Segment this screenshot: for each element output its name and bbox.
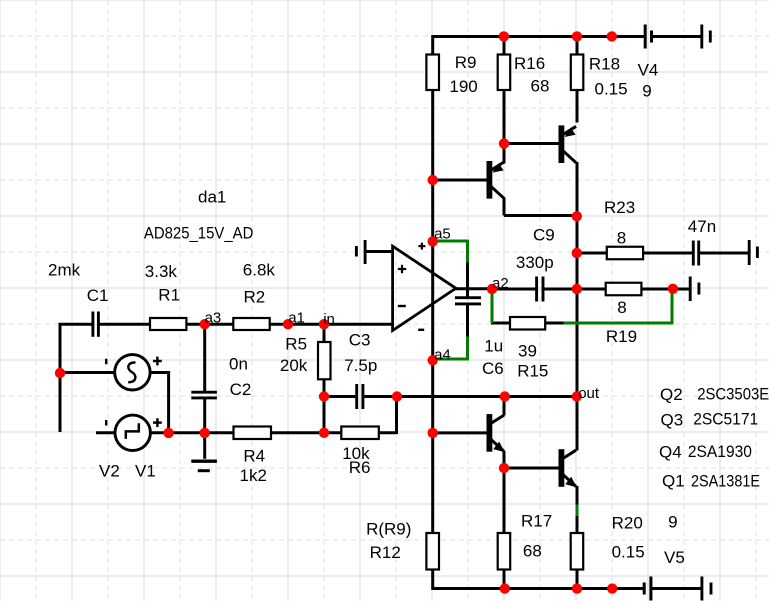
wire Q1 emitter segment (green) bbox=[576, 505, 579, 517]
svg-text:R18: R18 bbox=[589, 54, 620, 73]
resistor R6 value 10k bbox=[341, 427, 379, 478]
label Q1 model 2SA1381E bbox=[662, 472, 760, 491]
wire V2 left lead bbox=[59, 371, 116, 374]
wire V1 to C2 node bbox=[150, 431, 234, 434]
svg-text:R(R9): R(R9) bbox=[366, 520, 411, 539]
junction top rail R18 bbox=[572, 31, 582, 41]
svg-text:da1: da1 bbox=[198, 188, 226, 207]
node a4 bbox=[428, 347, 451, 366]
svg-text:V4: V4 bbox=[638, 61, 659, 80]
wire out row bbox=[396, 395, 578, 398]
transistor Q4 bbox=[487, 414, 505, 452]
resistor R17 value 68 bbox=[498, 512, 552, 570]
svg-text:8: 8 bbox=[617, 298, 626, 317]
wire Q3 emitter bbox=[576, 162, 579, 217]
resistor R5 value 20k bbox=[280, 335, 331, 380]
svg-text:0.15: 0.15 bbox=[612, 543, 645, 562]
wire left rail R9 to R12 bbox=[431, 89, 434, 534]
wire op-amp output bbox=[454, 287, 492, 290]
wire V1 left stub bbox=[96, 431, 116, 434]
svg-text:2mk: 2mk bbox=[48, 261, 81, 280]
wire op-amp noninverting input bbox=[365, 250, 393, 253]
wire R6 right lead bbox=[378, 431, 397, 434]
voltage source V1 (pulse) bbox=[106, 415, 162, 480]
resistor R23 value 8 bbox=[604, 198, 643, 259]
svg-text:out: out bbox=[578, 385, 600, 402]
svg-text:68: 68 bbox=[531, 77, 550, 96]
svg-text:in: in bbox=[323, 311, 335, 328]
label Q3 model 2SC5171 bbox=[661, 410, 759, 430]
svg-text:R17: R17 bbox=[521, 512, 552, 531]
wire R5 node to R4 row bbox=[323, 396, 326, 434]
node a2 bbox=[487, 275, 509, 294]
svg-text:0n: 0n bbox=[229, 355, 248, 374]
node a1 bbox=[283, 310, 305, 330]
wire R16 top lead bbox=[503, 35, 506, 54]
junction Q3 base/R16 bbox=[499, 138, 509, 148]
svg-text:C2: C2 bbox=[230, 380, 252, 399]
wire top supply rail bbox=[433, 35, 645, 38]
wire Q2 base bbox=[432, 179, 488, 182]
svg-text:47n: 47n bbox=[688, 217, 716, 236]
wire emitter row to out rail bbox=[504, 214, 577, 217]
wire R5 top lead bbox=[323, 323, 326, 343]
resistor R19 value 8 bbox=[606, 283, 642, 346]
wire Q1 base bbox=[503, 467, 560, 470]
terminal at R19 output bbox=[690, 277, 699, 302]
junction Q2 base bbox=[428, 175, 438, 185]
junction R5/C3 bbox=[319, 391, 329, 401]
svg-text:C3: C3 bbox=[349, 331, 371, 350]
svg-text:C9: C9 bbox=[533, 225, 555, 244]
junction bottom rail R20 bbox=[572, 583, 582, 593]
svg-text:V1: V1 bbox=[135, 462, 156, 481]
svg-text:Q4: Q4 bbox=[659, 443, 682, 462]
wire R23 right lead bbox=[642, 252, 692, 255]
terminal at 47n output bbox=[749, 240, 757, 265]
wire V5 to terminal bbox=[652, 587, 702, 590]
wire C3 left lead bbox=[323, 395, 355, 398]
wire C6 top lead bbox=[466, 262, 469, 298]
svg-text:20k: 20k bbox=[280, 356, 308, 375]
wire R17 top lead bbox=[503, 467, 506, 534]
resistor R20 value 0.15 bbox=[571, 514, 645, 570]
wire net a2 to R15 (green) bbox=[491, 289, 494, 323]
wire C1 left lead bbox=[59, 323, 92, 326]
wire R5 bottom lead bbox=[323, 378, 326, 397]
junction top rail V4 bbox=[607, 31, 617, 41]
svg-text:R9: R9 bbox=[455, 53, 477, 72]
transistor Q1 bbox=[559, 449, 577, 487]
battery V5 value 9 bbox=[644, 513, 685, 601]
terminal at V4 bbox=[702, 25, 711, 49]
svg-text:1k2: 1k2 bbox=[240, 466, 267, 485]
voltage source V2 (sine) bbox=[99, 355, 162, 481]
wire C9 to out rail bbox=[544, 288, 578, 291]
wire R9 top lead bbox=[431, 35, 434, 54]
wire R15 to R19 (green) bbox=[564, 288, 673, 324]
wire R23 left lead bbox=[576, 252, 607, 255]
wire ground lead bbox=[203, 433, 206, 459]
wire C3 right lead bbox=[364, 395, 398, 398]
svg-text:2SA1381E: 2SA1381E bbox=[691, 472, 760, 491]
wire R15 left lead bbox=[491, 322, 510, 325]
capacitor C9 value 330p bbox=[516, 225, 555, 301]
wire R18 top lead bbox=[576, 35, 579, 54]
resistor R9 value 190 bbox=[426, 53, 477, 96]
svg-text:R23: R23 bbox=[604, 198, 635, 217]
svg-text:330p: 330p bbox=[516, 253, 554, 272]
wire out rail bbox=[576, 215, 579, 451]
svg-text:R2: R2 bbox=[244, 288, 266, 307]
svg-text:R5: R5 bbox=[285, 335, 307, 354]
svg-text:9: 9 bbox=[668, 513, 677, 532]
svg-text:1u: 1u bbox=[484, 337, 503, 356]
svg-text:V5: V5 bbox=[664, 548, 685, 567]
node in bbox=[319, 311, 335, 329]
wire a3 rail to C2 bbox=[203, 323, 206, 393]
wire Q4 emitter bbox=[503, 451, 506, 469]
svg-text:9: 9 bbox=[642, 82, 651, 101]
wire net a4 (green) bbox=[433, 337, 468, 361]
svg-text:7.5p: 7.5p bbox=[344, 356, 377, 375]
wire R19 terminal lead bbox=[672, 288, 689, 291]
battery V4 value 9 bbox=[638, 25, 659, 101]
wire C2 to ground node bbox=[203, 398, 206, 434]
resistor R2 value 6.8k bbox=[233, 261, 275, 331]
wire R15 right lead bbox=[545, 322, 564, 325]
wire R4 to R6 bbox=[270, 431, 342, 434]
wire R19 right lead bbox=[641, 288, 674, 291]
resistor R18 value 0.15 bbox=[571, 54, 628, 98]
wire Q4 collector bbox=[503, 396, 506, 416]
svg-text:a5: a5 bbox=[434, 226, 451, 243]
junction Q4 base bbox=[428, 428, 438, 438]
junction left branch bbox=[55, 368, 65, 378]
wire Q1 emitter lower bbox=[576, 515, 579, 534]
svg-text:68: 68 bbox=[523, 542, 542, 561]
svg-text:R12: R12 bbox=[370, 543, 401, 562]
junction C3/R6 bbox=[392, 391, 402, 401]
wire R20 bottom lead bbox=[576, 570, 579, 590]
node out bbox=[572, 385, 600, 402]
junction Q1 base/R17 bbox=[499, 463, 509, 473]
svg-text:R6: R6 bbox=[349, 458, 371, 477]
capacitor C6 value 1u bbox=[455, 298, 504, 378]
wire Q3 base bbox=[503, 142, 560, 145]
svg-text:R1: R1 bbox=[158, 286, 180, 305]
wire bottom supply rail bbox=[433, 587, 644, 590]
resistor R15 value 39 bbox=[510, 317, 548, 381]
wire R19 left lead bbox=[576, 288, 606, 291]
junction bottom rail V5 bbox=[607, 583, 617, 593]
wire R1 to R2 through a3 bbox=[185, 323, 234, 326]
svg-text:a2: a2 bbox=[492, 275, 509, 292]
svg-text:Q2: Q2 bbox=[660, 385, 683, 404]
transistor Q3 bbox=[559, 125, 577, 163]
junction R4/R6 bbox=[319, 428, 329, 438]
svg-text:AD825_15V_AD: AD825_15V_AD bbox=[144, 224, 254, 243]
wire Q2 emitter bbox=[503, 198, 506, 216]
svg-text:R15: R15 bbox=[517, 362, 548, 381]
node a5 bbox=[428, 226, 451, 247]
svg-text:190: 190 bbox=[449, 77, 477, 96]
svg-text:R19: R19 bbox=[606, 327, 637, 346]
junction C9/R19 bbox=[572, 284, 582, 294]
wire R16 bottom lead bbox=[503, 89, 506, 144]
svg-text:V2: V2 bbox=[99, 462, 120, 481]
node a3 bbox=[200, 309, 222, 329]
wire C1 right lead bbox=[99, 323, 151, 326]
terminal at V5 bbox=[702, 577, 711, 601]
wire R2 to op-amp inverting input bbox=[269, 323, 393, 326]
wire Q4 base bbox=[432, 431, 488, 434]
wire V2 right lead bbox=[150, 371, 169, 374]
wire a2 to C9 bbox=[491, 288, 536, 291]
junction V1 output bbox=[163, 428, 173, 438]
svg-text:a3: a3 bbox=[205, 309, 222, 326]
wire net a5 (green) bbox=[433, 240, 468, 263]
wire C8 to terminal bbox=[700, 252, 749, 255]
svg-text:C6: C6 bbox=[482, 359, 504, 378]
wire C6 bottom lead bbox=[466, 305, 469, 338]
svg-text:a4: a4 bbox=[434, 347, 451, 364]
label Q4 model 2SA1930 bbox=[659, 442, 752, 462]
svg-text:R4: R4 bbox=[243, 447, 265, 466]
svg-text:39: 39 bbox=[518, 342, 537, 361]
op-amp U1 da1 AD825_15V_AD bbox=[144, 188, 456, 331]
svg-text:6.8k: 6.8k bbox=[243, 261, 276, 280]
svg-text:2SC5171: 2SC5171 bbox=[693, 410, 758, 429]
svg-text:2SC3503E: 2SC3503E bbox=[697, 385, 769, 404]
junction R19/terminal bbox=[668, 284, 678, 294]
wire Q2 collector bbox=[503, 143, 506, 164]
svg-text:3.3k: 3.3k bbox=[145, 262, 178, 281]
transistor Q2 bbox=[487, 161, 505, 199]
wire R18 bottom lead bbox=[576, 89, 579, 123]
capacitor value 47n bbox=[688, 217, 716, 266]
resistor R12 value R(R9) bbox=[366, 520, 439, 570]
svg-text:a1: a1 bbox=[288, 310, 305, 327]
junction C2 ground node bbox=[200, 428, 210, 438]
svg-text:C1: C1 bbox=[87, 286, 109, 305]
svg-text:R16: R16 bbox=[514, 54, 545, 73]
svg-text:R20: R20 bbox=[612, 514, 643, 533]
svg-text:Q3: Q3 bbox=[661, 411, 684, 430]
wire V2 to V1 vertical bbox=[167, 371, 170, 434]
capacitor C3 value 7.5p bbox=[344, 331, 377, 410]
svg-text:Q1: Q1 bbox=[662, 472, 685, 491]
resistor R1 value 3.3k bbox=[145, 262, 187, 330]
svg-text:8: 8 bbox=[617, 228, 626, 247]
capacitor C1 value 2mk bbox=[48, 261, 108, 337]
junction emitters top bbox=[572, 211, 582, 221]
terminal at op-amp noninverting input bbox=[356, 240, 365, 264]
wire left branch vertical bbox=[59, 323, 62, 432]
wire V4 to terminal bbox=[653, 35, 702, 38]
junction Q4 collector bbox=[500, 391, 510, 401]
resistor R4 value 1k2 bbox=[234, 427, 272, 486]
junction top rail R16 bbox=[499, 31, 509, 41]
svg-text:2SA1930: 2SA1930 bbox=[688, 442, 752, 461]
wire R17 bottom lead bbox=[503, 570, 506, 590]
wire R6 to C3 node bbox=[395, 396, 398, 435]
junction R23 bbox=[572, 248, 582, 258]
svg-text:0.15: 0.15 bbox=[595, 79, 628, 98]
capacitor C2 value 0n bbox=[191, 355, 251, 400]
ground bbox=[191, 461, 217, 471]
junction bottom rail R17 bbox=[500, 583, 510, 593]
wire Q1 emitter upper bbox=[576, 486, 579, 506]
resistor R16 value 68 bbox=[498, 54, 550, 96]
wire R12 bottom lead bbox=[431, 570, 434, 590]
label Q2 model 2SC3503E bbox=[660, 385, 769, 405]
